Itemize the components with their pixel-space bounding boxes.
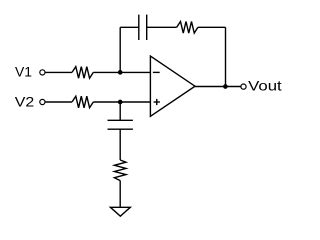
- svg-text:V1: V1: [15, 64, 32, 80]
- capacitor C1: [139, 15, 147, 40]
- wire R3 to right corner: [198, 26, 226, 28]
- svg-text:V2: V2: [15, 93, 35, 109]
- wire feedback right vertical: [225, 27, 227, 86]
- node junction on V1 row: [118, 70, 123, 75]
- op-amp plus sign: [154, 99, 160, 105]
- resistor R2: [72, 96, 93, 108]
- op-amp minus sign: [153, 71, 160, 73]
- resistor R3: [177, 22, 198, 34]
- terminal V2: [40, 99, 45, 104]
- wire R1 to op-amp inverting input: [93, 71, 150, 73]
- wire V2 terminal to R2: [45, 101, 72, 103]
- wire C1 to R3: [147, 26, 177, 28]
- wire C2 to R4: [119, 129, 121, 160]
- terminal Vout: [241, 84, 246, 89]
- resistor R4: [114, 160, 126, 181]
- wire feedback top to C1: [120, 26, 139, 28]
- wire feedback left vertical: [119, 27, 121, 72]
- svg-text:Vout: Vout: [248, 78, 282, 94]
- op-amp U1: [150, 56, 195, 116]
- resistor R1: [72, 67, 93, 79]
- wire R4 to ground: [119, 181, 121, 208]
- node output junction: [223, 84, 228, 89]
- node junction on V2 row: [118, 100, 123, 105]
- ground: [110, 207, 130, 216]
- terminal V1: [40, 70, 45, 75]
- wire V2 node down to C2: [119, 102, 121, 120]
- capacitor C2: [108, 120, 133, 129]
- wire V1 terminal to R1: [45, 71, 72, 73]
- wire R2 to op-amp non-inverting input: [93, 101, 150, 103]
- wire op-amp output: [195, 86, 241, 88]
